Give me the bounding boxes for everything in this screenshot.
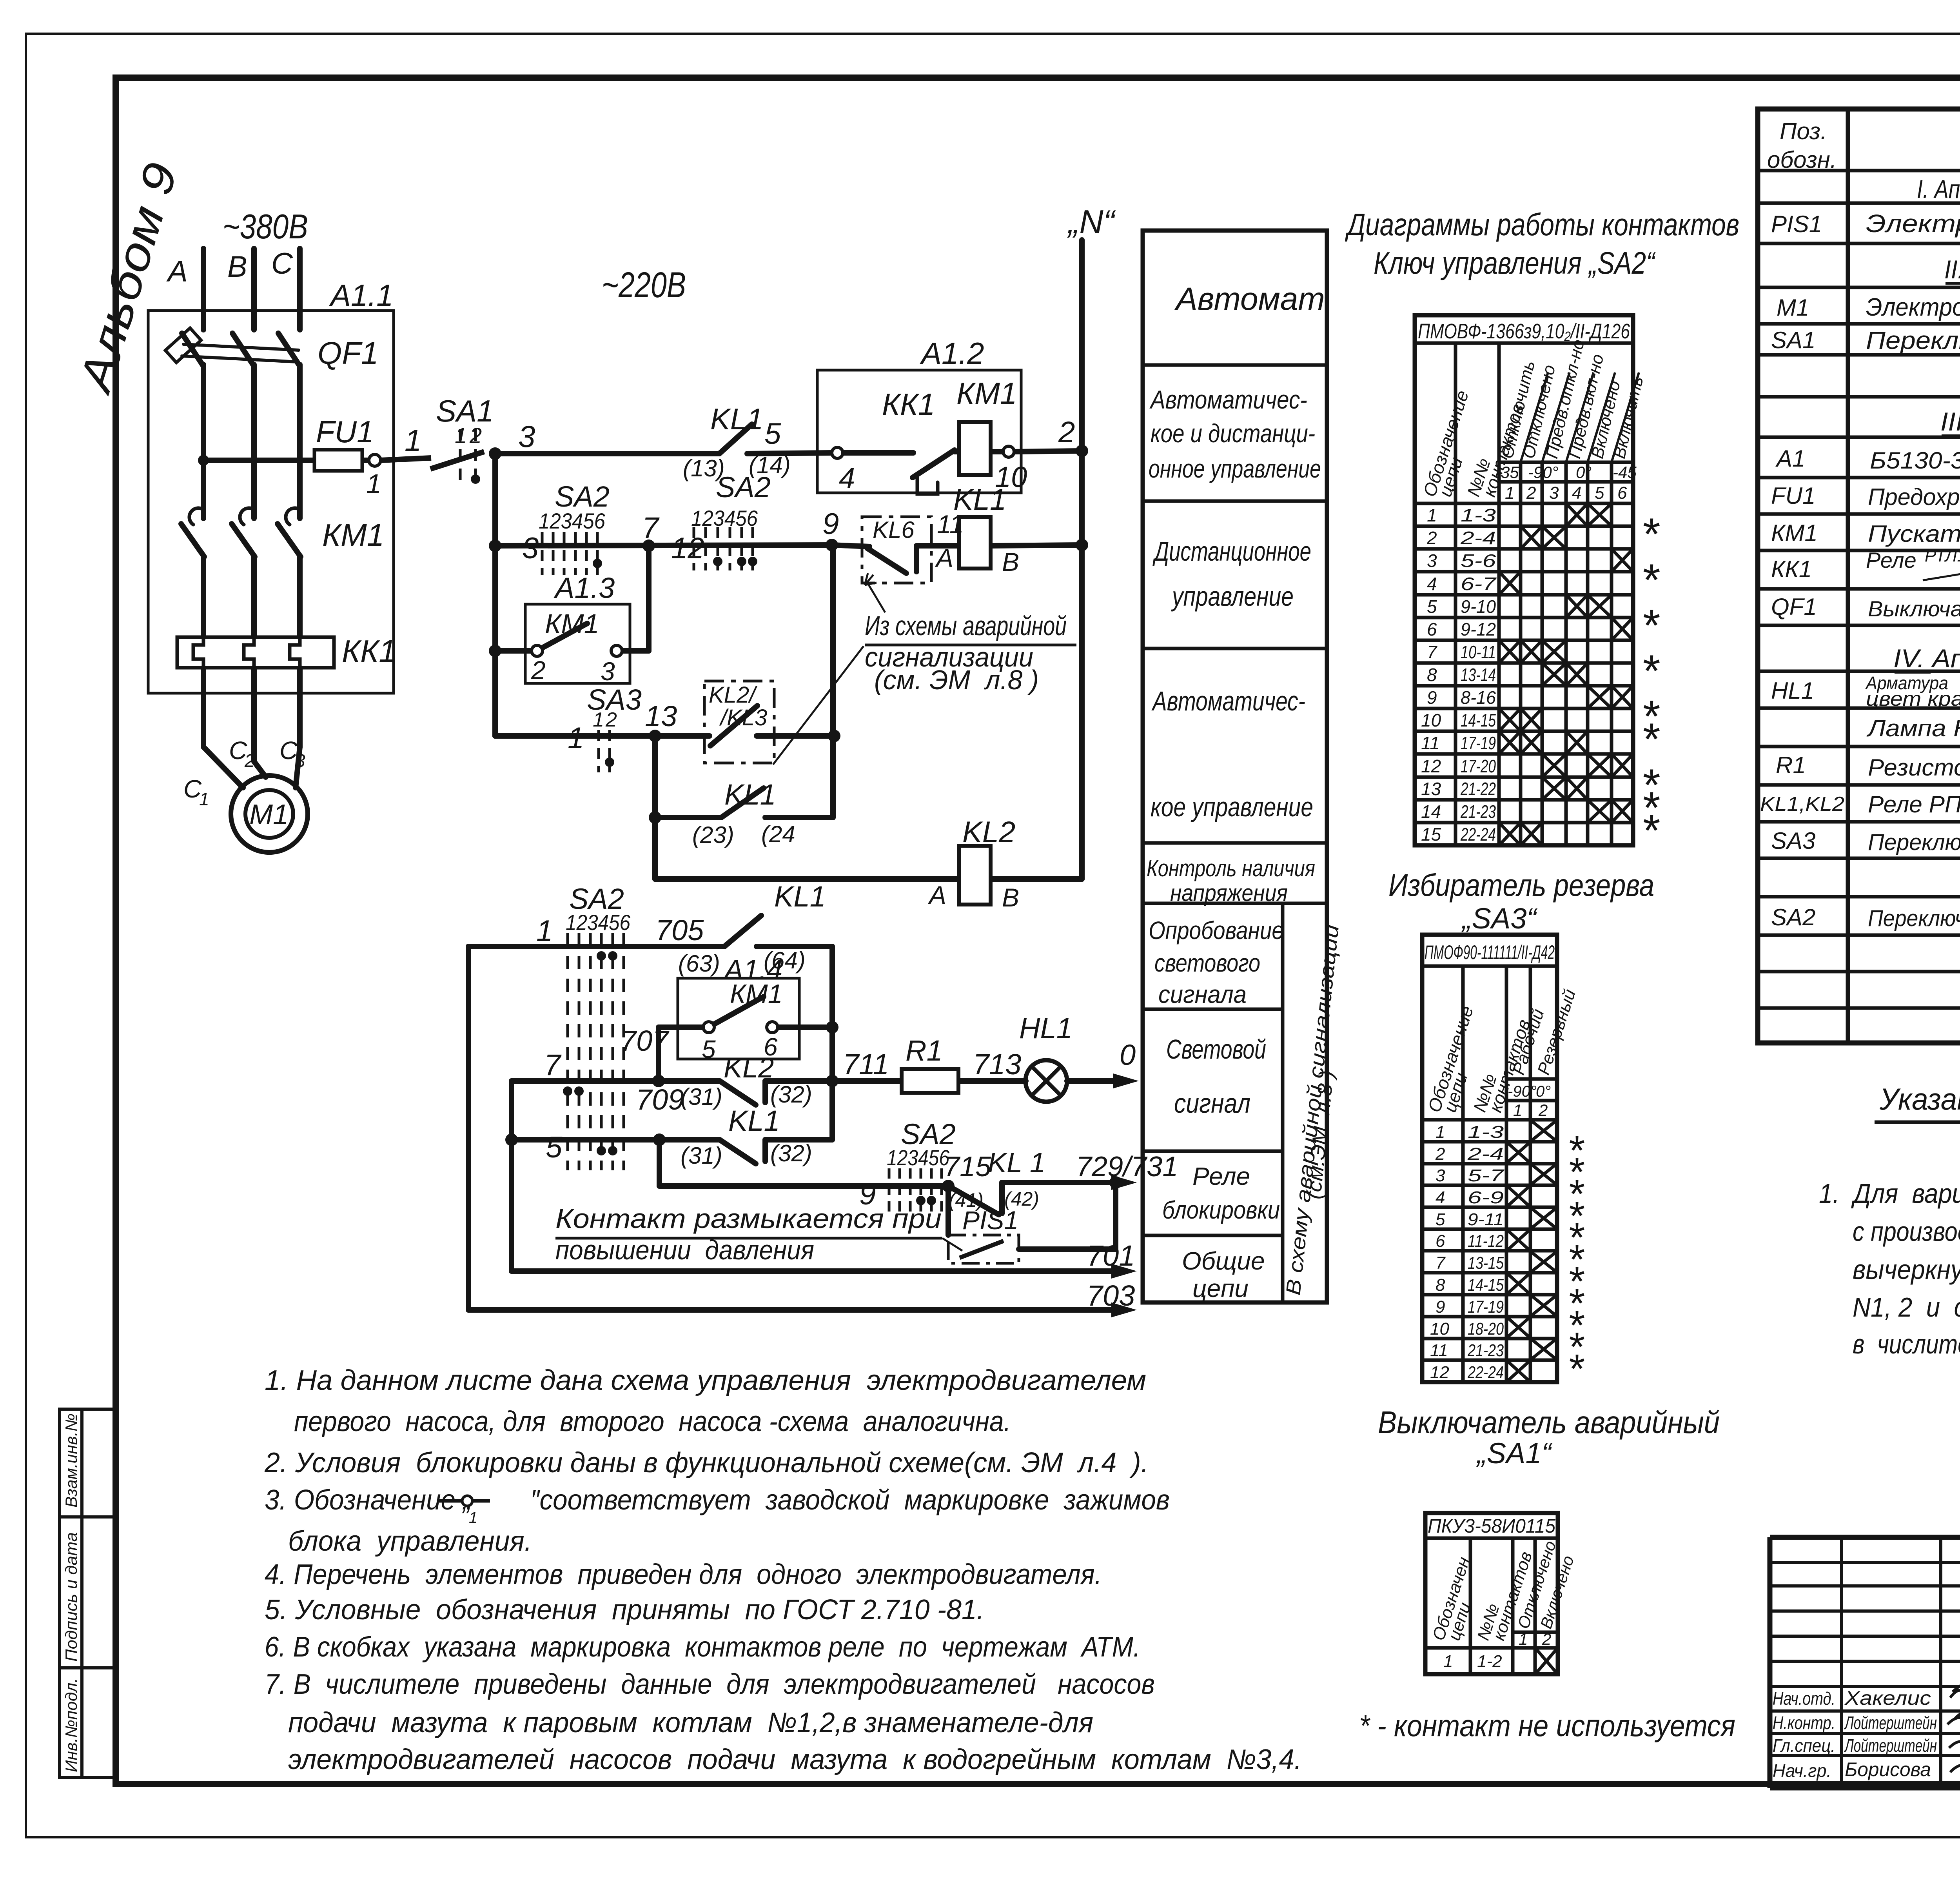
svg-text:1: 1 [1505, 483, 1514, 503]
svg-text:2: 2 [1058, 416, 1075, 449]
svg-text:Лойтерштейн: Лойтерштейн [1844, 1713, 1937, 1733]
svg-text:*: * [1641, 555, 1660, 605]
wire 701 [512, 1268, 1117, 1274]
svg-text:6: 6 [1427, 619, 1437, 639]
svg-text:1: 1 [1443, 1652, 1453, 1671]
svg-text:А: А [166, 255, 188, 288]
svg-text:3: 3 [1436, 1166, 1445, 1185]
title block [1770, 1537, 1960, 1788]
svg-text:3. Обозначение „ ″соотв: 3. Обозначение „ ″соответствует заводско… [265, 1484, 1170, 1516]
svg-text:ПМОВФ-1366з9,10₂/II-Д126: ПМОВФ-1366з9,10₂/II-Д126 [1418, 320, 1630, 343]
svg-text:(23): (23) [692, 822, 734, 848]
left drop wire 1 [466, 946, 471, 1310]
svg-text:5. Условные обозначения прин: 5. Условные обозначения приняты по ГОСТ … [265, 1594, 984, 1626]
wires KK1 to motor [201, 668, 206, 747]
svg-text:Электроконтактный манометр: Электроконтактный манометр [1866, 209, 1960, 238]
svg-text:715: 715 [944, 1151, 991, 1182]
svg-text:17-19: 17-19 [1468, 1297, 1504, 1317]
svg-text:цвет красный АСКМО U~220В: цвет красный АСКМО U~220В [1866, 688, 1960, 710]
svg-text:KL1: KL1 [774, 880, 826, 913]
svg-text:Резистор ПЭВ-25 2400 Ом: Резистор ПЭВ-25 2400 Ом [1868, 754, 1960, 781]
svg-text:8-16: 8-16 [1461, 687, 1496, 708]
svg-text:2: 2 [244, 750, 255, 771]
svg-text:А1.3: А1.3 [554, 572, 615, 604]
svg-text:3: 3 [295, 750, 305, 771]
node 3 [489, 447, 501, 460]
svg-text:713: 713 [973, 1048, 1021, 1081]
wire 703 [468, 1307, 1117, 1313]
svg-text:А: А [927, 881, 946, 910]
node 7 [642, 539, 655, 552]
svg-text:*: * [1641, 646, 1660, 696]
function table [1143, 231, 1327, 1302]
svg-text:/KL3: /KL3 [719, 705, 767, 730]
svg-text:„N“: „N“ [1067, 203, 1116, 241]
svg-text:Контроль наличия: Контроль наличия [1147, 855, 1315, 881]
svg-text:Автоматичес-: Автоматичес- [1151, 686, 1305, 716]
svg-text:123456: 123456 [539, 509, 606, 533]
svg-text:9-12: 9-12 [1461, 619, 1496, 639]
wire fuse to SA1 [381, 458, 431, 460]
svg-text:-90°: -90° [1508, 1083, 1537, 1100]
contactor KM1 main contacts [189, 508, 203, 525]
svg-text:123456: 123456 [566, 910, 631, 935]
svg-text:1: 1 [1519, 1630, 1528, 1648]
svg-text:Б5130-3174ГУХЛ4 /Б5130-3274ГУХ: Б5130-3174ГУХЛ4 /Б5130-3274ГУХЛ4 [1870, 447, 1960, 474]
phase wire A [201, 249, 206, 330]
svg-text:2: 2 [1435, 1144, 1445, 1164]
svg-text:11: 11 [1421, 733, 1440, 753]
svg-text:1-2: 1-2 [1477, 1652, 1502, 1671]
unit box A1.4 [678, 978, 799, 1059]
svg-text:Лойтерштейн: Лойтерштейн [1844, 1735, 1937, 1756]
svg-text:22-24: 22-24 [1460, 824, 1496, 845]
svg-text:6-7: 6-7 [1461, 574, 1497, 594]
svg-text:22-24: 22-24 [1467, 1363, 1504, 1382]
contact KM1 blade A1.4 [714, 997, 764, 1024]
svg-text:9-11: 9-11 [1468, 1210, 1504, 1229]
svg-text:Реле РПУ-2 , U~220В к 4з 4р: Реле РПУ-2 , U~220В к 4з 4р [1868, 791, 1960, 817]
svg-text:KL6: KL6 [873, 517, 915, 543]
unit box A1.3 [525, 604, 630, 683]
svg-text:*: * [1641, 714, 1660, 765]
breaker QF1 linkage bar [165, 328, 299, 363]
svg-text:Предохранитель ППТ-10У3 I пл.в: Предохранитель ППТ-10У3 I пл.вст.6А [1868, 484, 1960, 510]
svg-text:2-4: 2-4 [1460, 528, 1496, 548]
svg-text:5: 5 [1595, 483, 1604, 503]
svg-text:*: * [1641, 806, 1660, 856]
node 707 [652, 1075, 665, 1087]
svg-text:обозн.: обозн. [1767, 147, 1837, 173]
svg-text:1: 1 [469, 1509, 477, 1526]
svg-text:9-10: 9-10 [1461, 596, 1496, 617]
riser node13 down [652, 736, 658, 879]
svg-text:7: 7 [1427, 642, 1437, 662]
svg-text:KL 1: KL 1 [988, 1147, 1045, 1179]
lamp HL1 [1025, 1060, 1067, 1102]
svg-text:1: 1 [1427, 505, 1437, 525]
svg-text:1: 1 [1436, 1123, 1445, 1142]
svg-text:701: 701 [1087, 1239, 1135, 1272]
breaker QF1 blades [182, 333, 203, 366]
terminal mark symbol in note3 [439, 1499, 490, 1503]
lamp wire to 0 [1067, 1078, 1119, 1084]
svg-text:Нач.гр.: Нач.гр. [1773, 1760, 1831, 1781]
svg-text:HL1: HL1 [1771, 678, 1814, 704]
svg-text:SA3: SA3 [1771, 828, 1815, 854]
svg-text:123456: 123456 [691, 506, 758, 530]
SA2 contact table [1415, 315, 1639, 845]
svg-text:10: 10 [1421, 710, 1441, 730]
svg-text:(32): (32) [770, 1140, 812, 1166]
svg-text:9: 9 [1427, 687, 1437, 708]
wire KL1 coil to bus [991, 545, 1082, 546]
svg-text:0°: 0° [1576, 463, 1592, 481]
svg-text:10: 10 [1430, 1319, 1449, 1339]
svg-text:KL1: KL1 [728, 1104, 780, 1137]
svg-text:21-22: 21-22 [1460, 779, 1496, 799]
svg-text:Указание по привязке: Указание по привязке [1879, 1082, 1960, 1116]
svg-text:А: А [935, 543, 953, 572]
svg-text:2: 2 [605, 708, 617, 731]
svg-text:(31): (31) [681, 1084, 722, 1110]
svg-text:KL1: KL1 [724, 778, 776, 811]
svg-text:Борисова: Борисова [1845, 1758, 1931, 1780]
contact KL1 (23)(24) row [655, 815, 720, 820]
svg-text:КМ1: КМ1 [322, 518, 384, 552]
svg-text:Переключатель ПМОВФ-1366з9,10₂: Переключатель ПМОВФ-1366з9,10₂ /II-Д126 [1868, 906, 1960, 931]
svg-text:цепи: цепи [1192, 1274, 1249, 1302]
drop 709 to row 9 [657, 1140, 662, 1186]
svg-text:2-4: 2-4 [1467, 1144, 1504, 1164]
svg-text:Автоматичес-: Автоматичес- [1149, 385, 1307, 414]
svg-text:9: 9 [1436, 1297, 1445, 1317]
svg-text:3: 3 [1427, 550, 1437, 571]
svg-text:вычеркнуть электродвигатели: вычеркнуть электродвигатели [1853, 1254, 1960, 1285]
svg-text:Общие: Общие [1182, 1247, 1265, 1275]
motor M1 [231, 776, 308, 852]
svg-text:R1: R1 [1776, 752, 1806, 778]
svg-text:KL2: KL2 [962, 816, 1015, 849]
svg-text:В: В [227, 250, 247, 283]
svg-text:(31): (31) [681, 1143, 722, 1169]
svg-text:М1: М1 [249, 799, 289, 830]
wire 729/731 [1002, 1180, 1117, 1185]
svg-text:Подпись и дата: Подпись и дата [62, 1532, 80, 1662]
svg-text:управление: управление [1171, 581, 1294, 612]
A1.3 riser to node 7 [646, 546, 652, 651]
svg-text:13: 13 [1421, 779, 1441, 799]
svg-text:1: 1 [366, 469, 381, 499]
svg-text:1: 1 [405, 423, 421, 458]
arrowheads [1113, 1074, 1139, 1088]
svg-text:2: 2 [1542, 1630, 1551, 1648]
bus segment node3 down to SA3 row [492, 454, 498, 736]
svg-text:17-19: 17-19 [1461, 733, 1496, 753]
svg-text:KL2: KL2 [724, 1052, 774, 1084]
right riser 705 to 711 [829, 946, 835, 1081]
svg-text:7: 7 [544, 1048, 562, 1082]
svg-text:Гл.спец.: Гл.спец. [1773, 1735, 1835, 1756]
svg-text:сигнала: сигнала [1158, 980, 1247, 1008]
svg-text:онное управление: онное управление [1149, 454, 1321, 483]
svg-text:13-15: 13-15 [1468, 1253, 1504, 1273]
svg-text:11: 11 [937, 510, 964, 539]
svg-text:„SA3“: „SA3“ [1461, 902, 1538, 935]
svg-text:SA2: SA2 [1771, 904, 1815, 930]
svg-text:1. Для варианта мазутонасос: 1. Для варианта мазутонасосной [1819, 1178, 1960, 1209]
resistor R1 [902, 1069, 958, 1093]
wire PIS1 out [1019, 1246, 1116, 1252]
svg-text:КМ1: КМ1 [956, 376, 1017, 411]
svg-text:~220В: ~220В [602, 265, 686, 305]
svg-text:Электродвигатель: Электродвигатель [1866, 293, 1960, 321]
svg-text:Реле: Реле [1866, 548, 1916, 572]
wire row 7 [512, 1078, 720, 1084]
svg-text:РТЛ10160*4С: РТЛ10160*4С [1925, 546, 1960, 565]
fuse FU1 [203, 450, 368, 471]
svg-text:4. Перечень элементов привед: 4. Перечень элементов приведен для одног… [265, 1559, 1102, 1590]
svg-text:ПМОФ90-111111/II-Д42: ПМОФ90-111111/II-Д42 [1425, 941, 1555, 963]
svg-text:SA2: SA2 [716, 471, 771, 503]
wire row 705 [468, 944, 724, 949]
svg-text:А1.1: А1.1 [329, 278, 393, 312]
svg-text:15: 15 [1421, 824, 1441, 845]
svg-text:2: 2 [531, 656, 546, 685]
svg-text:6-9: 6-9 [1468, 1188, 1504, 1207]
svg-text:А1: А1 [1775, 445, 1805, 472]
svg-text:18-20: 18-20 [1468, 1319, 1504, 1339]
svg-text:6: 6 [1617, 483, 1627, 503]
wire 3 row1 [495, 451, 719, 456]
svg-text:(24: (24 [761, 821, 795, 847]
SA3 table [1422, 935, 1557, 1382]
svg-text:14: 14 [1421, 801, 1441, 822]
svg-text:*: * [1641, 509, 1660, 559]
svg-text:17-20: 17-20 [1461, 756, 1496, 776]
svg-text:2. Условия блокировки даны в: 2. Условия блокировки даны в функциональ… [264, 1447, 1149, 1479]
svg-text:711: 711 [843, 1048, 889, 1081]
svg-text:4: 4 [839, 462, 855, 494]
N bus vertical [1079, 240, 1085, 879]
svg-text:4: 4 [1572, 483, 1581, 503]
svg-text:кое управление: кое управление [1151, 792, 1313, 822]
svg-text:С: С [271, 247, 293, 280]
svg-text:SA2: SA2 [555, 480, 610, 513]
svg-text:Поз.: Поз. [1780, 118, 1827, 144]
svg-text:PIS1: PIS1 [962, 1206, 1018, 1235]
inventory margin strip [60, 1409, 116, 1778]
svg-text:Н.контр.: Н.контр. [1773, 1713, 1835, 1733]
svg-text:~380В: ~380В [223, 207, 308, 246]
svg-text:электродвигателей насосов по: электродвигателей насосов подачи мазута … [288, 1744, 1302, 1775]
svg-text:21-23: 21-23 [1460, 801, 1496, 822]
svg-text:Ключ управления „SA2“: Ключ управления „SA2“ [1374, 245, 1656, 280]
svg-text:Из схемы аварийной: Из схемы аварийной [865, 610, 1067, 641]
svg-text:709: 709 [636, 1083, 684, 1116]
node 715 [942, 1180, 955, 1192]
svg-text:Выключатель АЕ2046М-10РУ3-Б Iр: Выключатель АЕ2046М-10РУ3-Б Iр [1868, 596, 1960, 621]
svg-text:13-14: 13-14 [1461, 665, 1496, 685]
contact KL2 (31)(32) [720, 1081, 756, 1105]
svg-text:10-11: 10-11 [1461, 642, 1496, 662]
svg-text:Взам.инв.№: Взам.инв.№ [62, 1413, 80, 1508]
svg-text:PIS1: PIS1 [1771, 211, 1822, 237]
svg-text:1-3: 1-3 [1468, 1123, 1504, 1142]
svg-text:М1: М1 [1777, 294, 1809, 321]
svg-text:1: 1 [568, 721, 584, 755]
svg-text:SA1: SA1 [1771, 327, 1815, 353]
svg-text:кое и дистанци-: кое и дистанци- [1151, 419, 1315, 448]
svg-text:„SA1“: „SA1“ [1476, 1437, 1553, 1469]
unit box A1.1 [148, 311, 394, 693]
svg-text:Дистанционное: Дистанционное [1152, 536, 1311, 567]
SA1 table [1425, 1513, 1558, 1674]
svg-text:2: 2 [1526, 483, 1536, 503]
svg-text:35: 35 [1501, 463, 1519, 481]
svg-text:светового: светового [1154, 949, 1260, 977]
svg-text:QF1: QF1 [318, 336, 379, 371]
node 13 [649, 730, 661, 742]
svg-text:707: 707 [620, 1024, 670, 1057]
svg-text:4: 4 [1427, 574, 1437, 594]
svg-text:12: 12 [1430, 1363, 1449, 1382]
svg-text:R1: R1 [906, 1034, 943, 1067]
svg-text:В: В [1002, 547, 1019, 576]
node 2 [1076, 445, 1088, 457]
svg-text:729/731: 729/731 [1076, 1151, 1178, 1182]
riser node9 down [830, 545, 836, 817]
svg-text:1: 1 [199, 789, 209, 809]
svg-text:8: 8 [1427, 665, 1437, 685]
svg-text:7. В числителе приведены да: 7. В числителе приведены данные для элек… [265, 1669, 1155, 1700]
svg-text:2: 2 [1538, 1101, 1548, 1119]
SA3 row wire [495, 733, 710, 739]
wire A1.2 internal row1 [843, 450, 913, 456]
thermal relay KK1 heaters [177, 637, 334, 668]
svg-text:КМ1: КМ1 [1771, 520, 1818, 546]
svg-text:FU1: FU1 [1771, 483, 1815, 509]
svg-text:6: 6 [1436, 1232, 1445, 1251]
svg-text:Хакелис: Хакелис [1844, 1687, 1931, 1709]
node 711 [826, 1075, 838, 1087]
relay contact KL1 (13)(14) [719, 424, 752, 454]
svg-text:3: 3 [522, 532, 539, 565]
svg-text:Диаграммы работы контактов: Диаграммы работы контактов [1345, 207, 1739, 242]
svg-text:KL2/: KL2/ [709, 682, 758, 708]
svg-text:IV. Аппараты на щите КИП: IV. Аппараты на щите КИП [1893, 644, 1960, 673]
svg-text:QF1: QF1 [1771, 594, 1817, 620]
svg-text:12: 12 [1421, 756, 1441, 776]
svg-text:HL1: HL1 [1019, 1012, 1073, 1044]
svg-text:5-7: 5-7 [1468, 1166, 1504, 1185]
resistor R1 wire [832, 1078, 902, 1084]
svg-text:14-15: 14-15 [1468, 1275, 1504, 1295]
svg-text:N1, 2 и соответственно данн: N1, 2 и соответственно данные [1853, 1292, 1960, 1322]
svg-text:123456: 123456 [887, 1145, 950, 1170]
drop 715 to PIS1 [946, 1186, 951, 1235]
terminal circle after fuse [369, 454, 381, 466]
svg-text:Выключатель аварийный: Выключатель аварийный [1378, 1405, 1720, 1440]
wire row 9 [659, 1183, 948, 1189]
svg-text:Автомат: Автомат [1174, 281, 1325, 317]
svg-text:Опробование: Опробование [1149, 916, 1284, 945]
svg-text:7: 7 [1436, 1253, 1446, 1273]
contact box KL6 [862, 517, 931, 583]
wires QF1 to KM1 [201, 365, 206, 518]
svg-text:*: * [1567, 1346, 1584, 1392]
svg-text:-90°: -90° [1528, 463, 1559, 481]
svg-text:В: В [1002, 883, 1019, 912]
svg-text:5: 5 [764, 417, 781, 450]
svg-text:сигнал: сигнал [1174, 1088, 1250, 1119]
svg-text:2: 2 [1426, 528, 1437, 548]
svg-text:4: 4 [1436, 1188, 1445, 1207]
svg-text:(см. ЭМ л.8 ): (см. ЭМ л.8 ) [874, 665, 1039, 695]
svg-text:Инв.№подл.: Инв.№подл. [62, 1678, 80, 1772]
phase wire B [251, 249, 257, 330]
contact KL1 (63)(64) [724, 915, 761, 946]
svg-text:Избиратель резерва: Избиратель резерва [1388, 868, 1654, 903]
contact KL1 (41)(42) [951, 1187, 999, 1215]
parts list table [1758, 109, 1960, 1043]
svg-text:11-12: 11-12 [1468, 1232, 1504, 1251]
svg-text:11: 11 [1430, 1341, 1448, 1360]
node 709 [653, 1133, 666, 1146]
A1.3 contact KM1 blade [543, 623, 587, 648]
svg-text:1: 1 [536, 914, 553, 948]
svg-text:21-23: 21-23 [1467, 1341, 1504, 1360]
svg-text:КК1: КК1 [1771, 556, 1812, 582]
svg-text:повышении давления: повышении давления [555, 1235, 814, 1265]
coil KL2 [959, 846, 991, 905]
node 9 [826, 539, 838, 551]
svg-text:Световой: Световой [1166, 1034, 1266, 1064]
svg-text:(63): (63) [678, 950, 720, 977]
svg-text:А1.2: А1.2 [920, 336, 984, 371]
svg-text:0°: 0° [1536, 1083, 1551, 1100]
svg-text:Нач.отд.: Нач.отд. [1773, 1688, 1835, 1709]
svg-text:Реле: Реле [1192, 1162, 1250, 1190]
svg-text:1-3: 1-3 [1461, 505, 1496, 525]
svg-text:705: 705 [655, 914, 704, 946]
svg-text:-45: -45 [1613, 463, 1637, 481]
svg-text:5-6: 5-6 [1461, 550, 1496, 571]
svg-text:1: 1 [1513, 1101, 1522, 1119]
svg-text:KL1: KL1 [710, 403, 763, 436]
svg-text:II. Аппараты у механизма: II. Аппараты у механизма [1944, 255, 1960, 284]
coil KL1 [959, 517, 991, 569]
svg-text:Лампа КМ24-90 U~60В: Лампа КМ24-90 U~60В [1866, 715, 1960, 741]
leader from KL6 to note [868, 584, 885, 612]
svg-text:Переключатель ПМОФ90-111111 /I: Переключатель ПМОФ90-111111 /II -Д42 [1868, 830, 1960, 855]
svg-text:1: 1 [593, 708, 604, 731]
svg-text:703: 703 [1087, 1279, 1135, 1312]
svg-text:13: 13 [645, 700, 677, 732]
svg-text:блокировки: блокировки [1162, 1196, 1280, 1224]
svg-text:КК1: КК1 [882, 387, 935, 421]
left drop row7 [509, 1081, 514, 1271]
phase wire C [297, 249, 303, 330]
contact KL2/KL3 blade [710, 706, 757, 746]
svg-text:6. В скобках указана маркиро: 6. В скобках указана маркировка контакто… [265, 1631, 1140, 1663]
svg-text:5: 5 [1427, 596, 1437, 617]
svg-text:1. На данном листе дана схема: 1. На данном листе дана схема управления… [265, 1365, 1146, 1396]
contact KL1 (31)(32) [720, 1140, 756, 1164]
svg-text:3: 3 [1549, 483, 1559, 503]
svg-text:I. Аппараты на напорном трубоп: I. Аппараты на напорном трубопроводе [1917, 174, 1960, 203]
svg-text:12: 12 [671, 532, 704, 565]
